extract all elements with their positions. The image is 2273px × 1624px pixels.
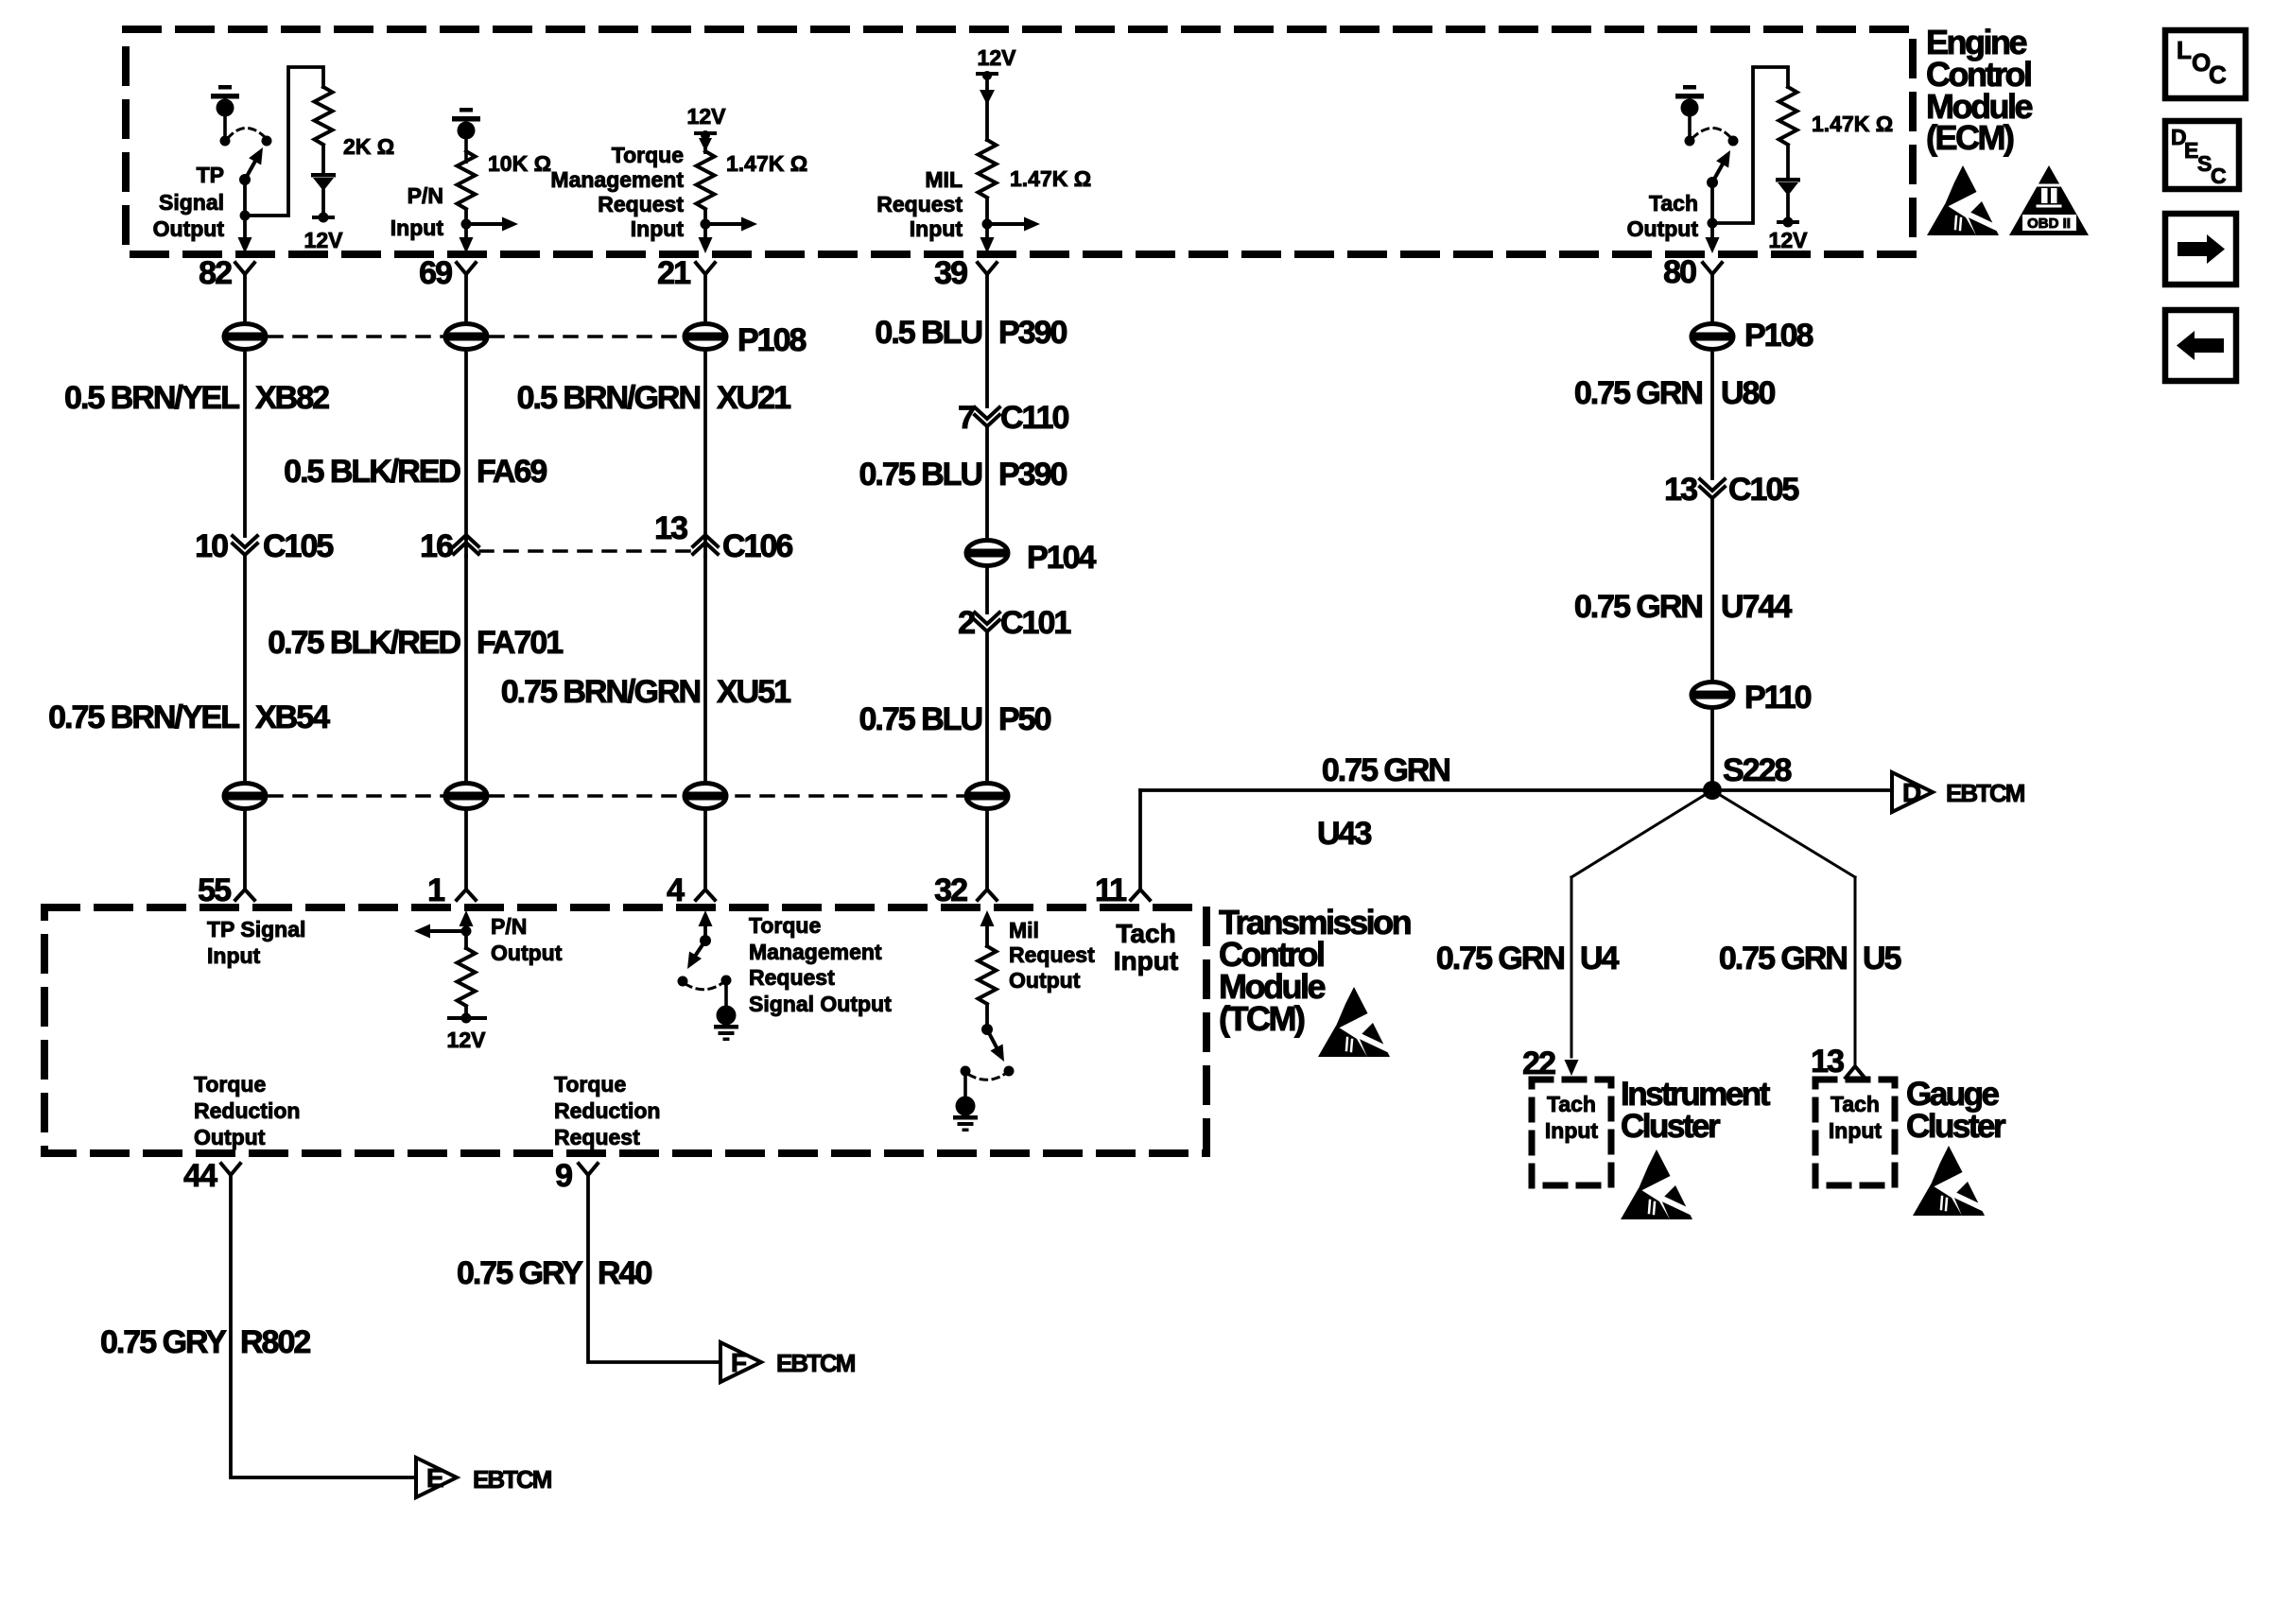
svg-text:55: 55 — [198, 872, 231, 908]
ESD warning triangle (ECM) — [1927, 165, 1999, 235]
wire: Tach pivot to junction — [1710, 182, 1714, 223]
connector P110 (wire 4) — [966, 784, 1008, 809]
connector P110 (tach) — [1692, 680, 1812, 716]
wire: TP pivot to junction — [243, 180, 247, 216]
TMR switch right contact — [721, 976, 732, 986]
svg-text:0.75 GRN: 0.75 GRN — [1574, 589, 1703, 625]
svg-text:Request: Request — [598, 192, 684, 216]
svg-text:1.47K Ω: 1.47K Ω — [1010, 166, 1091, 191]
wire+arrow: MIL to pin 39 — [980, 224, 995, 253]
svg-text:MIL: MIL — [925, 167, 963, 192]
svg-text:Input: Input — [910, 216, 963, 241]
pin 32 connector — [934, 872, 997, 908]
wire: U43 drop to pin 11 — [1138, 790, 1142, 890]
TMR switch left contact — [678, 976, 688, 987]
wire U4 vertical — [1570, 877, 1573, 1057]
splice S228 — [1703, 752, 1791, 800]
ESD warning triangle (instrument cluster) — [1621, 1149, 1692, 1219]
dashed link P108 row — [269, 335, 681, 338]
pin 13 connector (gauge cluster) — [1811, 1044, 1865, 1080]
wire: resistor to P/N junction — [464, 210, 468, 224]
resistor 10K ohm — [458, 151, 476, 209]
svg-text:E: E — [426, 1463, 444, 1493]
label Mil Request Output — [1009, 918, 1095, 993]
wire: resistor to MIL switch pivot — [985, 1005, 989, 1029]
svg-text:12V: 12V — [1769, 228, 1809, 252]
label Instrument Cluster — [1621, 1076, 1771, 1145]
node: TMR junction — [701, 219, 711, 230]
svg-text:XB82: XB82 — [255, 380, 329, 416]
LOC bookmark icon — [2165, 30, 2246, 98]
svg-text:U43: U43 — [1317, 816, 1371, 852]
DESC bookmark icon — [2165, 121, 2239, 189]
pin 44 connector — [183, 1158, 240, 1194]
svg-text:0.75 BRN/GRN: 0.75 BRN/GRN — [501, 674, 701, 710]
pin 11 connector — [1095, 872, 1150, 908]
svg-text:U5: U5 — [1863, 941, 1901, 976]
pin 21 connector — [657, 255, 715, 291]
svg-text:0.5 BLK/RED: 0.5 BLK/RED — [284, 454, 460, 490]
wire to TCM pin 4 — [703, 810, 707, 890]
wire FA701 — [464, 556, 468, 782]
wire: P104 to C101 — [985, 567, 989, 613]
resistor (TCM MIL) — [979, 946, 997, 1004]
ground (MIL switch) — [953, 1071, 978, 1132]
wire: P110 to splice S228 — [1710, 709, 1714, 790]
label Torque Management Request Input — [550, 143, 684, 241]
svg-text:0.75 GRN: 0.75 GRN — [1436, 941, 1565, 976]
svg-text:12V: 12V — [687, 104, 727, 129]
pin 69 connector — [419, 255, 476, 291]
svg-text:Output: Output — [491, 941, 563, 965]
ground (TMR switch) — [714, 980, 738, 1041]
MIL switch pivot (TCM) — [981, 1024, 993, 1035]
wire: resistor to 12V (TCM) — [464, 1007, 468, 1018]
svg-text:Tach: Tach — [1116, 919, 1175, 948]
pin 80 connector — [1663, 254, 1722, 290]
wire XU21 upper — [703, 274, 707, 323]
svg-text:D: D — [1902, 778, 1921, 807]
wire+arrow: TMR to pin 21 — [699, 224, 713, 253]
svg-text:Input: Input — [631, 216, 685, 241]
svg-text:R40: R40 — [598, 1255, 651, 1291]
svg-text:TP Signal: TP Signal — [207, 917, 305, 942]
svg-text:0.75 BRN/YEL: 0.75 BRN/YEL — [48, 700, 239, 735]
wire XB82 upper — [243, 274, 247, 323]
svg-text:1.47K Ω: 1.47K Ω — [726, 151, 807, 176]
label 0.5 BRN/YEL XB82 — [64, 380, 329, 416]
svg-text:Output: Output — [1009, 968, 1081, 993]
out-triangle D to EBTCM — [1892, 772, 2024, 812]
pin 1 connector — [427, 872, 476, 908]
svg-text:4: 4 — [667, 872, 685, 908]
wire to TCM pin 55 — [243, 810, 247, 890]
arrow: P/N output up — [460, 910, 474, 931]
svg-text:S228: S228 — [1723, 752, 1791, 788]
wire: diode to 12V (Tach) — [1786, 196, 1790, 222]
svg-text:1: 1 — [427, 872, 444, 908]
label TP Signal Output — [153, 163, 225, 241]
svg-text:P110: P110 — [1744, 680, 1812, 716]
pin 4 connector — [667, 872, 715, 908]
wire to TCM pin 1 — [464, 810, 468, 890]
svg-text:TP: TP — [197, 163, 224, 187]
wire to TCM pin 32 — [985, 810, 989, 890]
wire P50 — [985, 633, 989, 782]
label 0.5 BLU P390 — [875, 315, 1067, 351]
svg-text:Management: Management — [749, 940, 882, 964]
svg-text:0.75 GRN: 0.75 GRN — [1322, 752, 1450, 788]
svg-text:EBTCM: EBTCM — [776, 1349, 855, 1377]
pin 55 connector — [198, 872, 254, 908]
svg-text:16: 16 — [420, 528, 453, 564]
Tach switch arm — [1712, 150, 1730, 182]
TP switch dashed arc — [228, 128, 264, 138]
arrow into instrument cluster pin 22 — [1565, 1060, 1579, 1076]
instrument cluster tach input box — [1532, 1080, 1611, 1185]
connector C106 pin 13 — [654, 510, 792, 564]
resistor 1.47K ohm (Tach) — [1779, 87, 1797, 145]
connector P104 — [966, 540, 1096, 576]
svg-text:12V: 12V — [304, 228, 344, 252]
svg-text:O: O — [2192, 48, 2211, 77]
svg-text:1.47K Ω: 1.47K Ω — [1812, 112, 1893, 136]
dashed link C106 — [480, 549, 691, 553]
label Torque Management Request Signal Output — [749, 913, 892, 1016]
svg-text:80: 80 — [1663, 254, 1696, 290]
connector P108 (wire 1) — [224, 324, 266, 350]
svg-text:Reduction: Reduction — [554, 1098, 660, 1123]
svg-text:13: 13 — [1664, 472, 1697, 508]
label 0.5 BRN/GRN XU21 — [517, 380, 791, 416]
wire: junction to resistor (TCM P/N) — [464, 931, 468, 948]
svg-text:0.75 GRN: 0.75 GRN — [1574, 375, 1703, 411]
svg-text:(ECM): (ECM) — [1926, 118, 2014, 157]
label 0.75 BRN/GRN XU51 — [501, 674, 790, 710]
OBD II warning triangle — [2009, 165, 2089, 235]
connector C110 pin 7 — [958, 400, 1068, 436]
svg-text:R802: R802 — [240, 1324, 310, 1360]
back arrow icon — [2165, 310, 2236, 381]
diode (TP pull-up) — [311, 173, 336, 191]
wire XU51 — [703, 556, 707, 782]
svg-text:U80: U80 — [1721, 375, 1775, 411]
svg-text:0.75 GRY: 0.75 GRY — [100, 1324, 227, 1360]
forward arrow icon — [2165, 214, 2236, 285]
out-triangle E to EBTCM — [416, 1458, 551, 1497]
wire+arrow: Tach to pin 80 — [1706, 223, 1720, 253]
svg-text:Signal: Signal — [159, 190, 224, 215]
Tach switch pivot — [1707, 177, 1718, 188]
Tach switch right contact — [1728, 136, 1739, 147]
svg-text:Tach: Tach — [1547, 1092, 1596, 1116]
svg-text:82: 82 — [199, 255, 232, 291]
svg-text:EBTCM: EBTCM — [473, 1465, 551, 1494]
wire XB82 lower — [243, 351, 247, 536]
wire: resistor to junction (MIL) — [985, 199, 989, 224]
svg-text:XU21: XU21 — [717, 380, 790, 416]
svg-text:P/N: P/N — [408, 183, 443, 208]
ESD warning triangle (gauge cluster) — [1913, 1146, 1985, 1216]
label 0.75 GRN U43 — [1317, 752, 1449, 852]
svg-text:Output: Output — [153, 216, 225, 241]
MIL switch dashed arc — [969, 1074, 1005, 1080]
TP switch arm — [245, 147, 263, 180]
svg-text:Torque: Torque — [749, 913, 821, 938]
svg-text:22: 22 — [1522, 1045, 1555, 1081]
svg-text:P50: P50 — [998, 701, 1051, 737]
connector P108 (wire 3) — [685, 324, 726, 350]
svg-text:P108: P108 — [1744, 318, 1813, 354]
svg-text:Signal Output: Signal Output — [749, 992, 892, 1016]
TP switch pivot — [239, 174, 251, 185]
resistor 1.47K ohm (TMR) — [697, 151, 715, 209]
svg-text:Input: Input — [1545, 1118, 1599, 1143]
svg-text:P390: P390 — [998, 457, 1067, 492]
svg-text:Torque: Torque — [194, 1072, 266, 1097]
label MIL Request Input — [876, 167, 963, 241]
connector C105 pin 10 — [195, 528, 333, 564]
svg-text:Torque: Torque — [554, 1072, 626, 1097]
svg-text:XU51: XU51 — [717, 674, 790, 710]
svg-text:XB54: XB54 — [255, 700, 330, 735]
svg-text:Output: Output — [194, 1125, 266, 1149]
svg-text:Tach: Tach — [1649, 191, 1698, 216]
pin 39 connector — [934, 255, 997, 291]
wire: resistor to junction (TMR) — [703, 210, 707, 224]
wire: resistor to diode (Tach) — [1786, 146, 1790, 179]
TCM module label — [1219, 903, 1411, 1038]
connector P110 (wire 1) — [224, 784, 266, 809]
ECM module box — [126, 29, 1913, 254]
label P/N Input — [390, 183, 444, 240]
svg-text:44: 44 — [183, 1158, 217, 1194]
label 0.75 BLK/RED FA701 — [268, 625, 563, 661]
label 0.75 GRN U80 — [1574, 375, 1776, 411]
connector C106 pin 16 — [420, 528, 478, 564]
svg-text:Input: Input — [1829, 1118, 1883, 1143]
svg-text:Request: Request — [876, 192, 963, 216]
wire: 12V to resistor (MIL) — [985, 79, 989, 140]
wire U4 diagonal — [1571, 790, 1712, 877]
TMR switch pivot (TCM) — [700, 935, 711, 946]
svg-text:Input: Input — [390, 216, 444, 240]
svg-text:Output: Output — [1627, 216, 1699, 241]
TCM module box — [44, 907, 1206, 1153]
ground (TP switch upper contact) — [211, 85, 239, 147]
wire R40 — [588, 1175, 718, 1362]
wire XB54 — [243, 557, 247, 782]
label 0.75 GRY R40 — [457, 1255, 652, 1291]
connector C105 pin 13 (tach) — [1664, 472, 1798, 508]
gauge cluster tach input box — [1815, 1080, 1895, 1185]
svg-text:Reduction: Reduction — [194, 1098, 300, 1123]
svg-text:Cluster: Cluster — [1621, 1108, 1721, 1145]
svg-text:0.75 BLK/RED: 0.75 BLK/RED — [268, 625, 460, 661]
label 0.75 GRN U5 — [1719, 941, 1901, 976]
connector P110 (wire 3) — [685, 784, 726, 809]
svg-text:69: 69 — [419, 255, 452, 291]
svg-text:0.75 BLU: 0.75 BLU — [859, 457, 982, 492]
TMR switch dashed arc — [685, 983, 722, 990]
diode (Tach pull-up) — [1776, 178, 1800, 196]
wire: TP junction to resistor 2K — [245, 67, 323, 216]
svg-text:P108: P108 — [737, 322, 806, 358]
label 0.75 GRN U744 — [1574, 589, 1793, 625]
svg-text:39: 39 — [934, 255, 967, 291]
wire U80 lower — [1710, 351, 1714, 478]
label 0.75 GRY R802 — [100, 1324, 310, 1360]
MIL switch left contact — [961, 1066, 971, 1077]
svg-text:C106: C106 — [722, 528, 792, 564]
svg-text:2: 2 — [958, 605, 975, 641]
svg-text:C: C — [2209, 60, 2227, 89]
svg-text:Mil: Mil — [1009, 918, 1039, 942]
wire P390 lower — [985, 428, 989, 539]
svg-text:12V: 12V — [447, 1028, 487, 1052]
wire U5 diagonal — [1712, 790, 1855, 877]
arrow: P/N input direction — [466, 217, 518, 232]
label Tach Output — [1627, 191, 1699, 241]
svg-text:13: 13 — [654, 510, 687, 546]
wire FA69 lower — [464, 351, 468, 556]
MIL switch arm (TCM) — [987, 1029, 1004, 1062]
svg-text:Request: Request — [1009, 942, 1095, 967]
wire: Tach junction to resistor 1.47K — [1712, 67, 1788, 223]
wire: resistor to diode — [321, 146, 325, 174]
wire R802 — [231, 1175, 413, 1477]
arrow: P/N output direction left — [414, 924, 466, 939]
svg-text:C: C — [2211, 164, 2227, 188]
svg-text:12V: 12V — [978, 45, 1017, 70]
node: Tach junction — [1708, 218, 1718, 229]
wire U744 — [1710, 500, 1714, 681]
svg-text:Request: Request — [749, 965, 835, 990]
svg-text:0.5 BLU: 0.5 BLU — [875, 315, 981, 351]
arrow: MIL request output up — [980, 910, 995, 946]
svg-text:EBTCM: EBTCM — [1946, 779, 2024, 807]
wire XU21 lower — [703, 351, 707, 556]
wire: diode to 12V — [321, 191, 325, 217]
svg-text:0.75 GRY: 0.75 GRY — [457, 1255, 583, 1291]
svg-text:32: 32 — [934, 872, 967, 908]
svg-text:C105: C105 — [263, 528, 333, 564]
label Tach Input (instrument cluster) — [1545, 1092, 1599, 1143]
connector P108 (wire 2) — [445, 324, 487, 350]
svg-text:Management: Management — [550, 167, 684, 192]
ground (P/N pull-down) — [452, 108, 480, 164]
arrow: TMR signal output up — [699, 910, 713, 941]
wire U5 vertical — [1854, 877, 1857, 1066]
wire: 12V to resistor (TMR) — [703, 149, 707, 152]
label 0.75 GRN U4 — [1436, 941, 1620, 976]
svg-text:F: F — [731, 1348, 747, 1377]
connector P108 (tach) — [1692, 318, 1813, 354]
connector C101 pin 2 — [958, 605, 1070, 641]
svg-text:0.5 BRN/GRN: 0.5 BRN/GRN — [517, 380, 701, 416]
svg-text:Request: Request — [554, 1125, 640, 1149]
svg-text:7: 7 — [958, 400, 975, 436]
arrow: MIL input direction — [987, 217, 1040, 232]
label 0.75 BLU P50 — [859, 701, 1051, 737]
node: P/N junction — [461, 219, 472, 230]
dashed link P110 row — [269, 794, 963, 798]
12V supply node (TCM P/N) — [447, 1013, 487, 1024]
wire U43 horizontal — [1140, 788, 1892, 792]
MIL switch right contact — [1004, 1066, 1015, 1077]
label 0.5 BLK/RED FA69 — [284, 454, 547, 490]
ECM module label — [1926, 23, 2032, 157]
svg-text:11: 11 — [1095, 872, 1126, 908]
svg-text:P104: P104 — [1027, 540, 1096, 576]
resistor 1.47K ohm (MIL) — [979, 140, 997, 198]
svg-text:Input: Input — [1114, 946, 1178, 976]
wire P390 upper — [985, 274, 989, 406]
node: P/N output junction — [461, 926, 472, 937]
svg-text:9: 9 — [555, 1158, 572, 1194]
svg-text:Torque: Torque — [612, 143, 684, 167]
label 0.75 BLU P390 — [859, 457, 1067, 492]
12V supply node (TMR) — [694, 130, 717, 151]
pin 82 connector — [199, 255, 254, 291]
wire+arrow: P/N to pin 69 — [460, 224, 474, 253]
svg-text:Input: Input — [207, 943, 261, 968]
12V supply node (MIL) — [976, 71, 998, 105]
svg-text:13: 13 — [1811, 1044, 1844, 1080]
node: MIL junction — [982, 219, 993, 230]
svg-text:2K Ω: 2K Ω — [343, 134, 394, 159]
svg-text:21: 21 — [657, 255, 690, 291]
node: TP junction — [240, 211, 251, 221]
svg-text:U4: U4 — [1580, 941, 1620, 976]
label Tach Input (gauge cluster) — [1829, 1092, 1883, 1143]
label P/N Output — [491, 914, 563, 965]
label Torque Reduction Output — [194, 1072, 300, 1149]
svg-text:OBD II: OBD II — [2027, 216, 2071, 232]
TP switch right contact — [262, 136, 272, 147]
svg-text:0.5 BRN/YEL: 0.5 BRN/YEL — [64, 380, 239, 416]
pin 9 connector — [555, 1158, 598, 1194]
svg-text:0.75 GRN: 0.75 GRN — [1719, 941, 1848, 976]
label Torque Reduction Request — [554, 1072, 660, 1149]
svg-text:Tach: Tach — [1831, 1092, 1880, 1116]
wire+arrow: TP output to pin 82 — [238, 216, 252, 253]
svg-text:10: 10 — [195, 528, 228, 564]
ground (Tach switch upper contact) — [1675, 85, 1704, 147]
ESD warning triangle (TCM) — [1318, 987, 1390, 1057]
svg-text:L: L — [2177, 36, 2192, 64]
svg-text:C101: C101 — [1000, 605, 1070, 641]
svg-text:U744: U744 — [1721, 589, 1792, 625]
12V supply node (TP) — [312, 213, 335, 223]
svg-text:10K Ω: 10K Ω — [488, 151, 551, 176]
resistor (TCM P/N pull-up) — [458, 948, 476, 1006]
Tach switch dashed arc — [1692, 128, 1729, 138]
svg-text:0.75 BLU: 0.75 BLU — [859, 701, 982, 737]
svg-text:C105: C105 — [1728, 472, 1798, 508]
arrow: TMR input direction — [705, 217, 757, 232]
12V supply node (Tach) — [1777, 217, 1799, 228]
svg-text:C110: C110 — [1000, 400, 1068, 436]
svg-text:P390: P390 — [998, 315, 1067, 351]
label Tach Input (TCM) — [1114, 919, 1178, 976]
svg-text:FA69: FA69 — [477, 454, 547, 490]
svg-text:(TCM): (TCM) — [1219, 999, 1305, 1038]
svg-text:Cluster: Cluster — [1906, 1108, 2006, 1145]
wire FA69 upper — [464, 274, 468, 323]
connector P110 (wire 2) — [445, 784, 487, 809]
resistor 2K ohm — [315, 87, 333, 145]
